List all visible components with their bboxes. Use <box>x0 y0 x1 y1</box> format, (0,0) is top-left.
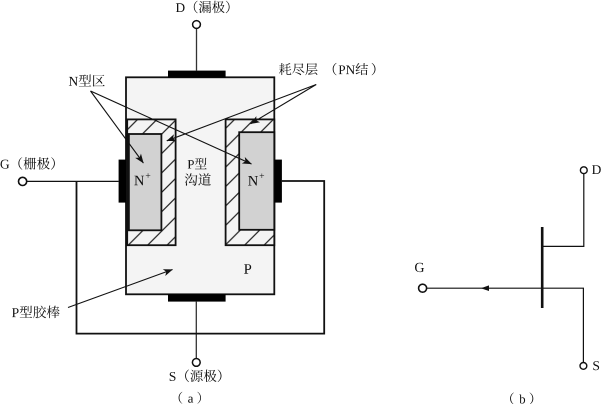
JFET source branch wire <box>543 288 583 362</box>
label P-type rod <box>12 306 60 319</box>
terminal G circle <box>19 177 27 185</box>
gate arrowhead pointing away from channel <box>481 285 489 291</box>
label S (source) with Chinese <box>170 370 222 383</box>
label depletion layer (PN junction) <box>279 63 376 75</box>
JFET gate wire <box>427 287 541 289</box>
N+ region left <box>129 134 162 230</box>
leader arrow from N-type label to left N+ <box>91 91 144 163</box>
gate metal contact right <box>274 160 282 203</box>
depletion layer (hatched) around left N+ region <box>127 119 175 245</box>
terminal S circle <box>192 359 200 367</box>
N+ region right <box>239 132 274 230</box>
label N+ left <box>134 173 150 185</box>
label S (symbol) <box>593 361 599 370</box>
wire gate lead <box>27 180 119 182</box>
wire gate loop left-bottom-right <box>77 181 325 334</box>
terminal S circle (symbol) <box>580 363 587 370</box>
label D (symbol) <box>592 165 601 174</box>
label P body <box>244 264 251 274</box>
label N-type region <box>69 75 105 87</box>
leader arrow from depletion label to left structure <box>167 85 316 141</box>
depletion layer (hatched) around right N+ region <box>226 119 275 245</box>
leader arrow from depletion label to right structure <box>251 85 317 124</box>
label P-channel line2 <box>185 173 211 186</box>
JFET symbol: channel bar <box>541 227 544 308</box>
label N+ right <box>248 174 264 186</box>
drain metal contact (top pad) <box>168 71 226 78</box>
leader arrow from N-type label to right N+ <box>91 91 252 164</box>
terminal D circle <box>193 21 201 29</box>
wire source lead <box>195 302 197 359</box>
label (a) <box>179 392 201 404</box>
leader arrow from P-rod label into body <box>68 270 173 308</box>
label G (gate) with Chinese <box>1 157 55 170</box>
JFET drain branch wire <box>543 174 583 247</box>
label G (symbol) <box>415 263 424 272</box>
gate metal contact left <box>119 160 126 203</box>
terminal G circle (symbol) <box>419 284 427 292</box>
label P-channel line1 <box>188 158 207 169</box>
source metal contact (bottom pad) <box>168 294 226 301</box>
label D (drain) with Chinese <box>176 1 230 14</box>
terminal D circle (symbol) <box>580 167 587 174</box>
wire drain lead <box>196 29 198 71</box>
label (b) <box>510 393 533 404</box>
P-type silicon body (main box) <box>126 77 274 294</box>
